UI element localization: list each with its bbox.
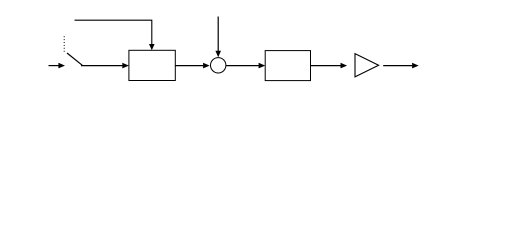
block 2 (plant) <box>265 51 310 81</box>
feedback/trigger wire into top of block 1 <box>75 20 155 50</box>
amplifier triangle <box>355 54 379 77</box>
wire output arrow <box>383 63 419 69</box>
sampler switch dotted actuation line <box>63 36 65 53</box>
summing junction <box>211 58 226 73</box>
sampler switch arm <box>67 53 82 65</box>
block 1 (hold) <box>129 50 175 80</box>
wire summing junction to block 2 <box>226 63 265 69</box>
wire block 2 to amplifier <box>311 63 348 69</box>
wire switch to block 1 <box>81 63 129 69</box>
wire block 1 to summing junction <box>175 63 209 69</box>
disturbance arrow into summing junction <box>215 17 221 58</box>
wire input arrow <box>49 63 66 69</box>
